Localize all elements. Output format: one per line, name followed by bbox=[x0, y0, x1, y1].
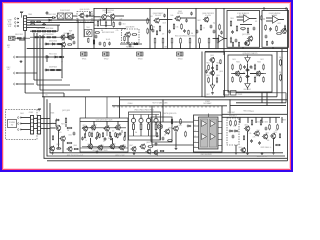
resistor R638 bbox=[200, 24, 202, 30]
wire mid wire 2 bbox=[18, 72, 37, 74]
capacitor C615 bbox=[99, 42, 102, 46]
filter FL601 bbox=[58, 13, 65, 19]
resistor C629 bbox=[217, 38, 219, 45]
capacitor C602 bbox=[42, 23, 46, 26]
resistor R700 bbox=[91, 132, 92, 137]
wire bottom bus A bbox=[50, 152, 283, 154]
capacitor C647 bbox=[196, 30, 199, 34]
capacitor C644 bbox=[250, 65, 253, 69]
jack J1 bbox=[15, 17, 19, 19]
wire fan v3 bbox=[39, 35, 41, 90]
wire q602 out bbox=[115, 15, 124, 17]
transistor Q644 bbox=[240, 147, 246, 153]
junction bbox=[149, 48, 150, 49]
wire ic602 in bbox=[237, 16, 244, 18]
capacitor C638 bbox=[271, 41, 274, 45]
resistor R668b bbox=[263, 76, 264, 82]
transistor Q647 bbox=[130, 146, 136, 152]
resistor R690 bbox=[230, 120, 232, 126]
wire fan h1 bbox=[34, 79, 62, 81]
resistor R655 bbox=[261, 15, 262, 20]
resistor R710 bbox=[232, 42, 233, 47]
wire preamp v2 bbox=[106, 122, 108, 127]
pin 8 IC601 bbox=[218, 127, 222, 129]
op-amp IC601 unit 2 bbox=[210, 121, 215, 127]
ground row gnd3 bbox=[133, 152, 136, 155]
wire bc w2 bbox=[58, 130, 60, 146]
junction bbox=[215, 48, 216, 49]
wire bottom bus B bbox=[47, 155, 285, 157]
junction bbox=[42, 48, 43, 49]
resistor R624 bbox=[95, 32, 100, 34]
wire midleft wire3 bbox=[45, 69, 62, 71]
resistor R707 bbox=[124, 136, 125, 141]
test point TP603 bbox=[137, 52, 144, 56]
transistor Q601 bbox=[100, 14, 106, 20]
transistor Q618 bbox=[245, 56, 251, 64]
wire cn r2 bbox=[41, 123, 56, 125]
relay RY601 bbox=[224, 91, 230, 96]
junction bbox=[43, 96, 44, 97]
capacitor C655 bbox=[155, 142, 158, 146]
wire bridge w1 bbox=[240, 73, 245, 75]
transistor Q622 bbox=[55, 125, 61, 131]
resistor R665 bbox=[240, 64, 242, 70]
resistor R626 bbox=[124, 36, 125, 42]
wire ic603 in2 bbox=[266, 20, 273, 22]
transistor Q640 bbox=[244, 126, 250, 132]
resistor R713 bbox=[220, 59, 221, 64]
driver block bbox=[205, 52, 225, 97]
resistor R695 bbox=[269, 124, 271, 130]
resistor R682 bbox=[148, 146, 154, 148]
transistor Q634 bbox=[164, 129, 170, 135]
wire v62 bbox=[61, 44, 63, 78]
trimmer VR601 bbox=[131, 115, 135, 137]
connector CN602 bbox=[31, 116, 34, 135]
wire C626 lead bbox=[162, 44, 164, 49]
wire c row wire bbox=[87, 15, 95, 17]
resistor R604 bbox=[46, 30, 51, 32]
wire vert top 5 bbox=[215, 9, 217, 49]
border frame inner pink fade bbox=[3, 3, 290, 169]
test point TP602 bbox=[103, 52, 110, 56]
resistor R659 bbox=[230, 37, 232, 43]
resistor R662 bbox=[216, 64, 218, 70]
wire bc w1 bbox=[50, 127, 55, 129]
capacitor C612 bbox=[119, 22, 122, 26]
wire bc w3 bbox=[62, 141, 64, 153]
wire preamp stub2 bbox=[106, 131, 108, 136]
capacitor C643 bbox=[243, 65, 246, 69]
capacitor C604 bbox=[85, 15, 89, 18]
junction bbox=[117, 121, 118, 122]
wire preamp row1 bbox=[82, 127, 126, 129]
resistor R697 bbox=[275, 144, 281, 146]
chassis ground frame bbox=[20, 11, 23, 14]
LED D615 bbox=[157, 122, 162, 131]
ground br gnd4 bbox=[272, 152, 275, 155]
resistor C627 bbox=[180, 38, 182, 45]
resistor R661 bbox=[208, 64, 210, 70]
resistor R601 bbox=[31, 30, 36, 32]
resistor R701 bbox=[99, 133, 100, 138]
wire bridge row bbox=[231, 73, 245, 75]
junction bbox=[236, 16, 237, 17]
wire q603 row bbox=[120, 43, 142, 45]
resistor R674 bbox=[52, 135, 53, 140]
resistor R667b bbox=[232, 76, 233, 82]
wire driver mid bbox=[212, 62, 214, 84]
wire top supply bus bbox=[94, 8, 288, 10]
junction bbox=[36, 31, 37, 32]
wire vert top 6 bbox=[223, 9, 225, 56]
resistor R613 bbox=[50, 69, 55, 71]
resistor R671 bbox=[65, 117, 67, 123]
capacitor C651 bbox=[73, 132, 76, 136]
junction bbox=[46, 31, 47, 32]
transistor Q632 bbox=[118, 145, 124, 151]
resistor R678 bbox=[109, 132, 110, 137]
wire left h 55b bbox=[25, 92, 64, 94]
capacitor C636 bbox=[253, 27, 256, 31]
wire v163 bbox=[162, 100, 164, 122]
junction bbox=[49, 152, 50, 153]
wire br v2 bbox=[247, 131, 249, 152]
resistor R664 bbox=[216, 77, 218, 83]
wire fan v4 bbox=[42, 35, 44, 97]
op-amp IC601 unit 4 bbox=[210, 134, 215, 140]
resistor R670 bbox=[280, 59, 282, 66]
terminal node bbox=[263, 8, 265, 10]
transistor Q635 bbox=[172, 126, 178, 132]
wire preamp rail top bbox=[80, 121, 128, 123]
transistor Q603 bbox=[124, 32, 130, 38]
transistor Q649 bbox=[152, 150, 158, 156]
wire bridge n bbox=[247, 64, 249, 82]
resistor R605 bbox=[51, 30, 56, 32]
wire q603 down bbox=[127, 37, 129, 44]
pin 6 IC601 bbox=[194, 147, 199, 149]
wire br v3 bbox=[273, 139, 275, 152]
jack J4 bbox=[14, 56, 18, 58]
junction bbox=[39, 43, 40, 44]
pin 3 IC601 bbox=[194, 131, 199, 133]
wire cn l2 bbox=[34, 123, 38, 125]
pin 10 IC601 bbox=[218, 139, 222, 141]
ground row gnd1 bbox=[51, 152, 54, 155]
resistor R621 bbox=[97, 20, 99, 26]
protect block bbox=[227, 118, 239, 145]
pin 5 IC601 bbox=[194, 142, 199, 144]
remote label box bbox=[8, 120, 17, 128]
transistor Q606 bbox=[203, 17, 209, 23]
wire ic601a in bbox=[213, 38, 219, 40]
wire vert right board 2 bbox=[281, 49, 283, 103]
wire cn out 4 bbox=[27, 24, 60, 26]
junction bbox=[46, 155, 47, 156]
resistor R712 bbox=[266, 41, 267, 46]
wire drop 276 bbox=[275, 117, 277, 123]
wire q605 out bbox=[181, 17, 197, 19]
wire preamp v4 bbox=[90, 138, 92, 144]
jack J8 bbox=[18, 122, 22, 124]
wire join64 bbox=[63, 93, 65, 97]
resistor R647 bbox=[147, 28, 149, 34]
transistor Q621 bbox=[245, 82, 251, 90]
wire cn l1 bbox=[34, 118, 38, 120]
schematic canvas bbox=[0, 0, 293, 177]
wire ic603 out bbox=[279, 19, 285, 21]
wire q601 vfeed bbox=[106, 9, 108, 14]
capacitor C668 bbox=[265, 127, 268, 131]
resistor R602 bbox=[36, 30, 41, 32]
resistor C626 bbox=[162, 38, 164, 45]
wire midleft wire1 bbox=[45, 43, 62, 45]
capacitor C607 bbox=[73, 41, 76, 45]
resistor R683 bbox=[56, 148, 61, 149]
resistor R611 bbox=[57, 43, 62, 45]
wire vert top 1 bbox=[93, 9, 95, 49]
capacitor C635 bbox=[265, 35, 268, 39]
resistor R642 bbox=[171, 38, 173, 45]
capacitor C637 bbox=[244, 42, 247, 46]
transistor Q616 bbox=[209, 70, 215, 76]
resistor R679 bbox=[115, 132, 116, 137]
wire v150b bbox=[151, 106, 153, 145]
wire ic602 fb bbox=[240, 24, 252, 26]
resistor R612 bbox=[59, 56, 64, 58]
resistor R628 bbox=[104, 42, 105, 47]
op-amp IC601 unit 1 bbox=[202, 121, 207, 127]
output block bbox=[228, 55, 272, 92]
resistor R686 bbox=[185, 131, 187, 137]
resistor R680 bbox=[124, 132, 125, 137]
junction bbox=[195, 8, 196, 9]
wire q604 out bbox=[160, 19, 173, 21]
wire R642 lead bbox=[171, 44, 173, 49]
wire drop 270 bbox=[269, 117, 271, 123]
wire v222b bbox=[221, 106, 223, 150]
capacitor C630 bbox=[213, 30, 216, 34]
jack J6 bbox=[14, 83, 18, 85]
wire cn out 2 bbox=[27, 19, 150, 21]
wire filter row wire bbox=[30, 30, 58, 32]
wire signal line right top bbox=[222, 113, 287, 115]
wire fl link2 bbox=[73, 15, 77, 17]
jack J3 bbox=[15, 25, 19, 27]
wire q601 link bbox=[106, 15, 109, 17]
resistor R706 bbox=[110, 136, 111, 141]
junction bbox=[93, 15, 94, 16]
resistor R609 bbox=[46, 37, 51, 38]
test point TP600 bbox=[9, 36, 16, 40]
wire ic602 in2 bbox=[237, 19, 244, 21]
resistor R616 bbox=[88, 38, 89, 43]
wire fan v1 bbox=[33, 33, 35, 80]
resistor R696 bbox=[277, 124, 279, 130]
wire vfeed2 bbox=[83, 19, 85, 38]
IC601 outline bbox=[194, 115, 223, 152]
wire filter drop bbox=[57, 25, 59, 31]
wire vert top 4 bbox=[195, 9, 197, 49]
diode D606 bbox=[45, 56, 50, 58]
transistor Q627 bbox=[103, 126, 109, 132]
transistor Q626 bbox=[90, 125, 96, 131]
ground br gnd2 bbox=[246, 152, 249, 155]
op-amp IC601 unit 3 bbox=[202, 134, 207, 140]
wire ic603 in bbox=[266, 17, 273, 19]
junction bbox=[51, 31, 52, 32]
wire rm w1 bbox=[22, 117, 31, 119]
wire drop 282 bbox=[281, 117, 283, 123]
resistor R666 bbox=[254, 64, 256, 70]
transistor Q642 bbox=[262, 134, 268, 140]
diode D616 bbox=[187, 125, 192, 127]
wire bridge out v2 bbox=[266, 92, 268, 105]
q603 block bbox=[122, 29, 140, 43]
resistor R631 bbox=[151, 24, 153, 30]
capacitor C669 bbox=[95, 136, 98, 140]
capacitor C634 bbox=[269, 27, 272, 31]
transistor Q604 bbox=[153, 18, 159, 24]
capacitor C661 bbox=[232, 135, 235, 139]
wire v85 bbox=[85, 97, 87, 118]
IC601 top pin bbox=[207, 114, 209, 118]
capacitor C613 bbox=[95, 35, 98, 39]
wire mid rail C bbox=[112, 105, 227, 107]
transistor Q633 bbox=[139, 144, 145, 150]
junction bbox=[263, 18, 264, 19]
wire cn r1 bbox=[41, 118, 50, 120]
transistor Q614 bbox=[280, 28, 286, 34]
resistor R605b bbox=[17, 37, 22, 39]
wire mute v1 bbox=[175, 132, 177, 148]
trim T601 bbox=[85, 30, 93, 37]
capacitor C622 bbox=[185, 19, 188, 23]
wire drop 248 bbox=[247, 117, 249, 123]
resistor R641 bbox=[154, 38, 156, 45]
wire bias wire bbox=[94, 28, 126, 30]
connector CN603 bbox=[38, 116, 41, 135]
transistor Q646 bbox=[66, 146, 72, 152]
jack J9 bbox=[18, 128, 22, 130]
wire vert top 2 bbox=[149, 9, 151, 49]
wire fl link bbox=[56, 15, 57, 17]
junction bbox=[106, 121, 107, 122]
IC601 inner column B bbox=[209, 119, 216, 147]
wire relay feed bbox=[236, 92, 286, 94]
jack J7 bbox=[18, 116, 22, 118]
capacitor C625 bbox=[220, 31, 223, 35]
resistor R603 bbox=[41, 30, 46, 32]
resistor R634 bbox=[173, 23, 175, 29]
wire preamp v3 bbox=[117, 122, 119, 126]
pin 11 IC601 bbox=[218, 145, 222, 147]
wire C629 lead bbox=[217, 44, 219, 49]
op-amp IC601a bbox=[219, 35, 225, 42]
ground row gnd2 bbox=[96, 151, 99, 154]
resistor R676 bbox=[97, 132, 98, 137]
wire cn out 3 bbox=[27, 22, 94, 24]
capacitor C621 bbox=[163, 14, 166, 18]
wire relay feed v bbox=[285, 93, 287, 103]
capacitor C652 bbox=[81, 137, 84, 141]
transistor Q602 bbox=[109, 14, 115, 20]
wire mid rail B bbox=[120, 99, 287, 101]
transistor Q623 bbox=[59, 136, 65, 142]
wire v47 stub bbox=[46, 55, 48, 62]
diode D613 bbox=[245, 69, 250, 71]
resistor R689 bbox=[74, 148, 79, 149]
capacitor C616 bbox=[108, 42, 111, 46]
wire b2 stub bbox=[272, 47, 274, 48]
diode D602 bbox=[48, 19, 53, 21]
junction bbox=[223, 8, 224, 9]
diode D617 bbox=[229, 130, 234, 132]
capacitor C614 bbox=[129, 44, 132, 48]
wire preamp v5 bbox=[112, 138, 114, 144]
capacitor C645 bbox=[205, 70, 208, 74]
resistor C628 bbox=[199, 38, 201, 45]
resistor R623 bbox=[113, 21, 115, 27]
junction bbox=[43, 158, 44, 159]
ground br gnd3 bbox=[261, 152, 264, 155]
resistor R685 bbox=[180, 118, 182, 124]
resistor R667 bbox=[240, 76, 242, 82]
transistor Q648 bbox=[145, 149, 151, 155]
resistor R627 bbox=[133, 43, 138, 45]
op-amp IC602a bbox=[244, 15, 250, 22]
wire mute w2 bbox=[159, 129, 161, 140]
resistor R705 bbox=[279, 133, 280, 138]
resistor R632 bbox=[159, 25, 161, 31]
junction bbox=[149, 20, 150, 21]
wire bottom bus D bbox=[47, 160, 288, 162]
junction bbox=[266, 105, 267, 106]
capacitor C606 bbox=[23, 37, 27, 40]
wire br v1 bbox=[235, 145, 237, 152]
transistor Q631 bbox=[109, 144, 115, 150]
capacitor C654 bbox=[119, 132, 122, 136]
resistor R677 bbox=[102, 132, 103, 137]
wire cn r3 bbox=[41, 128, 50, 130]
pin 7 IC601 bbox=[218, 121, 222, 123]
wire b1 stub bbox=[242, 47, 244, 48]
capacitor C646 bbox=[168, 30, 171, 34]
transistor Q612 bbox=[247, 36, 253, 42]
wire ic601a out bbox=[224, 38, 227, 40]
wire v119 bbox=[119, 97, 121, 118]
wire C628 lead bbox=[199, 44, 201, 49]
amp block 2 bbox=[262, 11, 289, 48]
resistor R644 bbox=[208, 38, 210, 45]
wire preamp stub1 bbox=[85, 131, 87, 134]
amp block 1 bbox=[227, 11, 260, 48]
wire vert right board 1 bbox=[287, 9, 289, 161]
relay RY602 bbox=[231, 91, 237, 96]
junction bbox=[61, 77, 62, 78]
junction bbox=[46, 99, 47, 100]
capacitor C633 bbox=[235, 39, 238, 43]
ground driver gnd bbox=[211, 92, 214, 95]
wire cn out 5 bbox=[27, 27, 45, 29]
resistor R675 bbox=[89, 132, 90, 137]
resistor R651 bbox=[230, 20, 232, 26]
wire cn out 1 bbox=[27, 17, 53, 19]
wire trim top bbox=[129, 114, 159, 116]
transistor Q625 bbox=[82, 126, 88, 132]
